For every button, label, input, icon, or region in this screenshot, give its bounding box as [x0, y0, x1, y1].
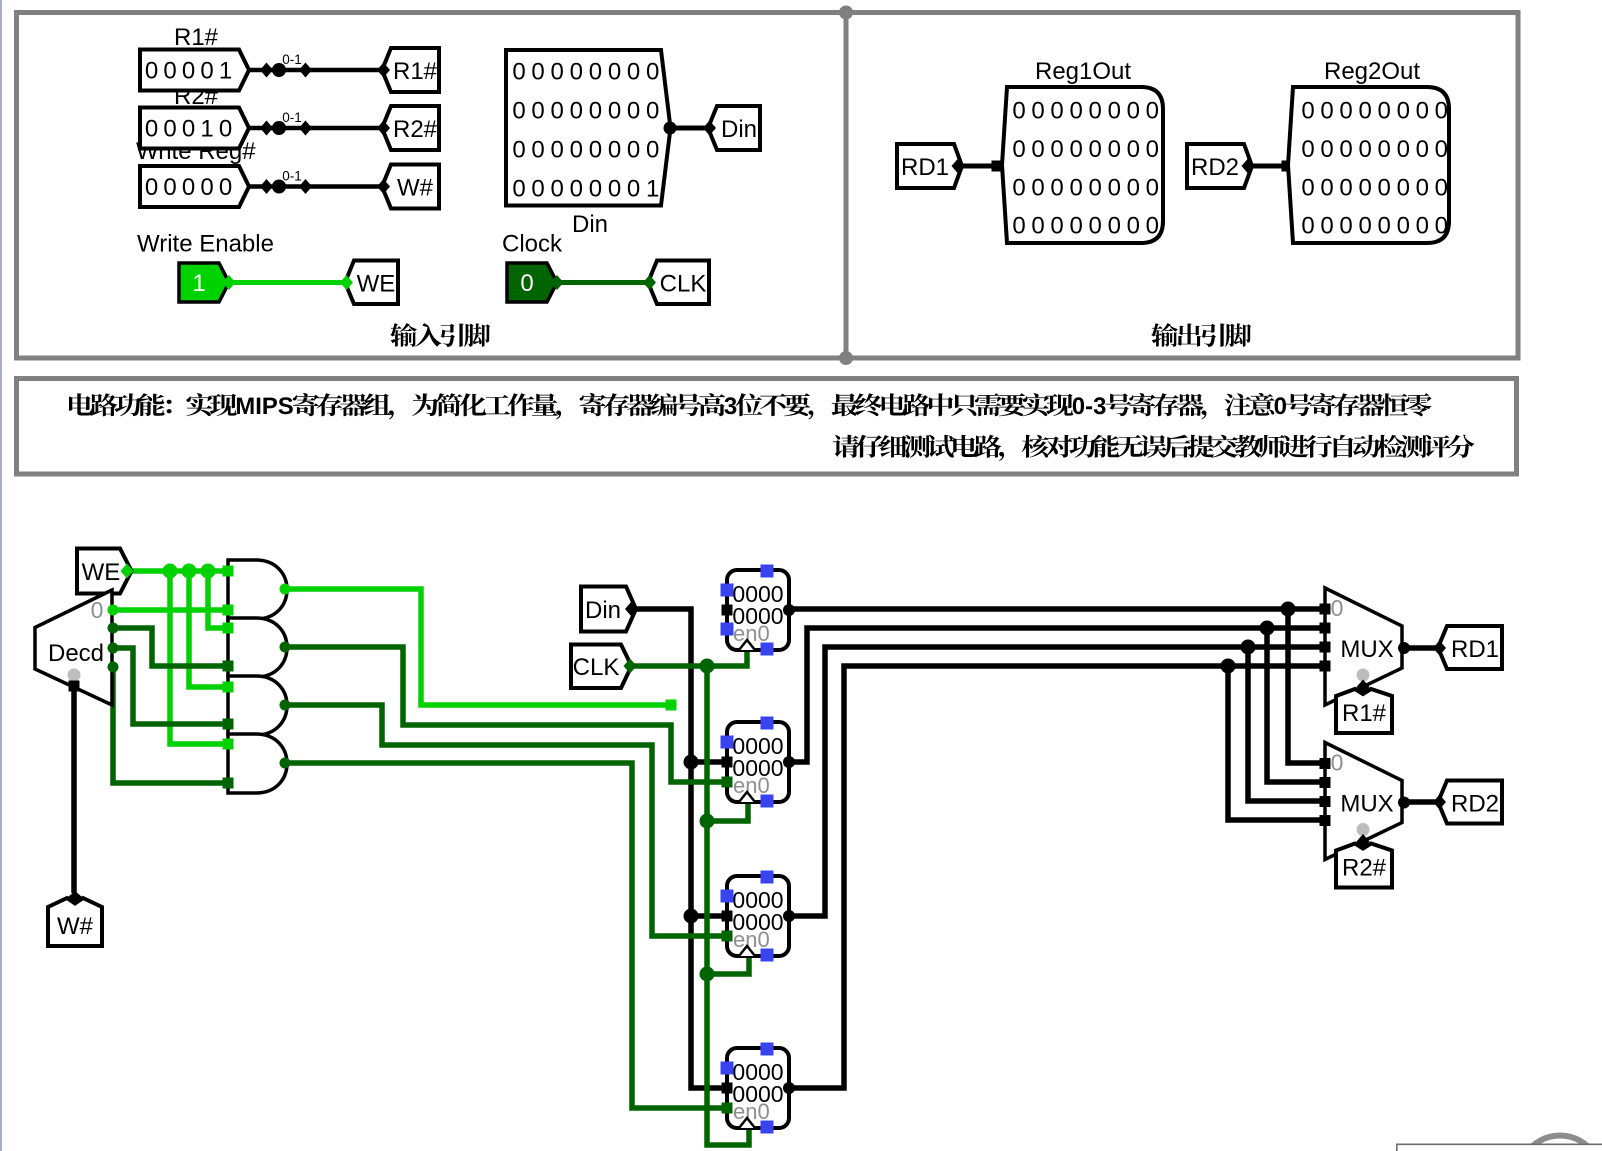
- svg-text:0: 0: [570, 137, 583, 164]
- svg-text:0: 0: [608, 137, 621, 164]
- pin RD1 (circuit): [1438, 626, 1502, 669]
- input pin Clock value 0: [507, 263, 557, 302]
- splitter fan-out diamond R1#: [260, 63, 273, 78]
- AND gate G1: [228, 560, 287, 619]
- wire WE point diamond: [223, 275, 236, 290]
- pin RD2 (circuit): [1438, 781, 1502, 824]
- label shuchu-yinjiao (output pins): [1151, 323, 1251, 347]
- wire gate4 out to reg4 en: [285, 763, 728, 1108]
- panel output-pins box: [846, 13, 1518, 359]
- pin CLK point: [624, 659, 637, 674]
- wire decoder out2 to gate3: [113, 648, 228, 724]
- MUX MUX1 input square 0: [1320, 604, 1331, 615]
- pin RD2 point: [1242, 159, 1255, 174]
- MUX MUX1 input square 3: [1320, 661, 1331, 672]
- svg-text:0: 0: [512, 137, 525, 164]
- wire W# pin to splitter: [244, 184, 382, 189]
- junction 170,571: [163, 564, 178, 579]
- svg-text:0: 0: [1127, 174, 1140, 201]
- svg-text:0: 0: [1358, 98, 1371, 125]
- wire decoder out0 to gate1: [113, 607, 228, 613]
- svg-text:0: 0: [1320, 174, 1333, 201]
- MUX MUX2 enable floating dot: [1357, 823, 1370, 836]
- decoder out3 port: [108, 662, 119, 673]
- svg-text:0: 0: [1089, 136, 1102, 163]
- wire CLK reg2 stub: [707, 803, 748, 821]
- svg-text:0: 0: [1108, 98, 1121, 125]
- gate G1 output port: [280, 584, 291, 595]
- input pin RD1: [897, 144, 962, 188]
- register REG2 handle bottom: [761, 795, 774, 808]
- svg-text:0: 0: [1069, 174, 1082, 201]
- frame left window edge: [0, 0, 2, 1151]
- svg-text:0: 0: [1320, 98, 1333, 125]
- svg-text:0: 0: [1339, 174, 1352, 201]
- register REG3 D input square: [722, 911, 733, 922]
- svg-text:RD1: RD1: [1451, 636, 1499, 663]
- wire end 728,762: [723, 757, 734, 768]
- gate G4 input square y=744: [223, 739, 234, 750]
- input pin RD2: [1187, 144, 1252, 188]
- svg-text:Reg1Out: Reg1Out: [1035, 58, 1131, 85]
- splitter fan-out diamond R2#: [260, 121, 273, 136]
- svg-text:1: 1: [192, 270, 205, 297]
- wire Din pin to Din label: [670, 126, 708, 131]
- svg-text:CLK: CLK: [660, 271, 707, 298]
- svg-text:W#: W#: [397, 175, 434, 202]
- junction 707,821: [700, 814, 715, 829]
- svg-text:0: 0: [1012, 174, 1025, 201]
- svg-text:0: 0: [1435, 136, 1448, 163]
- gate G2 input square y=666: [223, 661, 234, 672]
- register REG4 D input square: [722, 1083, 733, 1094]
- svg-text:0: 0: [627, 59, 640, 86]
- panel divider joint dots: [839, 6, 853, 20]
- label pin CLK: [648, 261, 709, 305]
- decoder out1 port: [108, 623, 119, 634]
- decoder select square: [69, 681, 80, 692]
- wire Din to reg2 D stub: [691, 759, 728, 765]
- svg-text:0: 0: [200, 174, 213, 201]
- svg-text:0: 0: [1069, 98, 1082, 125]
- svg-text:0-1: 0-1: [282, 169, 302, 184]
- wire Clock point diamond: [551, 275, 564, 290]
- svg-text:0: 0: [627, 176, 640, 203]
- svg-text:W#: W#: [57, 913, 94, 940]
- svg-text:0: 0: [589, 59, 602, 86]
- register REG3 handle left: [721, 890, 734, 903]
- gate G3 output port: [280, 700, 291, 711]
- svg-text:0: 0: [145, 174, 158, 201]
- junction 208,571: [201, 564, 216, 579]
- wire end 728,916: [723, 911, 734, 922]
- svg-text:0: 0: [1146, 136, 1159, 163]
- pin RD2 circuit point: [1433, 795, 1446, 810]
- svg-text:CLK: CLK: [573, 654, 620, 681]
- svg-text:0: 0: [1378, 213, 1391, 240]
- svg-text:WE: WE: [357, 271, 396, 298]
- MUX MUX1 input square 2: [1320, 642, 1331, 653]
- svg-text:R2#: R2#: [1342, 855, 1387, 882]
- MUX MUX1 body: [1325, 588, 1402, 705]
- junction 707,666: [700, 659, 715, 674]
- gate G3 input square y=687: [223, 682, 234, 693]
- svg-text:Write Enable: Write Enable: [137, 231, 274, 258]
- gate G2 output port: [280, 642, 291, 653]
- svg-text:0: 0: [1358, 174, 1371, 201]
- register REG4 handle bottom: [761, 1121, 774, 1134]
- label pin R2#: [382, 106, 439, 150]
- pin CLK (circuit): [571, 645, 632, 689]
- wire RD1 to probe1: [962, 164, 997, 169]
- wire reg1 Q to MUX1 in1: [789, 606, 1325, 612]
- AND gate G4: [228, 734, 287, 793]
- register REG3 handle bottom: [761, 949, 774, 962]
- svg-text:0: 0: [1089, 98, 1102, 125]
- svg-text:0: 0: [531, 59, 544, 86]
- svg-text:0: 0: [1320, 213, 1333, 240]
- MUX MUX2 select point: [1357, 834, 1370, 849]
- MUX MUX1 output port: [1398, 642, 1410, 654]
- ui corner panel: [1397, 1144, 1602, 1151]
- svg-text:1: 1: [200, 116, 213, 143]
- MUX MUX2 input square 3: [1320, 815, 1331, 826]
- svg-text:0: 0: [570, 176, 583, 203]
- svg-text:0: 0: [1435, 174, 1448, 201]
- input pin R2# 5-bit: [140, 108, 249, 149]
- svg-text:0: 0: [1146, 174, 1159, 201]
- svg-text:en0: en0: [733, 621, 770, 646]
- svg-text:0: 0: [551, 98, 564, 125]
- svg-text:WE: WE: [82, 559, 121, 586]
- splitter fan-in diamond R1#: [299, 63, 312, 78]
- svg-text:Din: Din: [721, 116, 757, 143]
- svg-text:0: 0: [1301, 213, 1314, 240]
- register REG1 handle left: [721, 584, 734, 597]
- wire end 728,1088: [723, 1083, 734, 1094]
- MUX MUX1 enable floating dot: [1357, 669, 1370, 682]
- wire MUX2 out to RD2: [1404, 799, 1438, 805]
- pin Din (circuit): [581, 587, 636, 632]
- gate G2 input square y=628: [223, 623, 234, 634]
- svg-text:MUX: MUX: [1340, 791, 1393, 818]
- svg-text:0: 0: [145, 58, 158, 85]
- junction 1267,628: [1260, 621, 1275, 636]
- register REG4 handle left: [721, 1062, 734, 1075]
- svg-text:0: 0: [646, 98, 659, 125]
- svg-text:R1#: R1#: [1342, 700, 1387, 727]
- register REG2 D input square: [722, 757, 733, 768]
- svg-text:0: 0: [1331, 750, 1344, 776]
- svg-text:RD2: RD2: [1191, 154, 1239, 181]
- splitter junction R2#: [272, 121, 286, 135]
- description line 2: [833, 435, 1475, 461]
- label pin R1# point: [377, 63, 390, 78]
- svg-text:0: 0: [1089, 213, 1102, 240]
- register REG3 Q output dot: [783, 910, 795, 922]
- gate G3 input square y=724: [223, 719, 234, 730]
- AND gate G3: [228, 676, 287, 735]
- input pin R1# 5-bit: [140, 50, 249, 91]
- register REG1 D input square: [722, 605, 733, 616]
- svg-text:0: 0: [1435, 213, 1448, 240]
- wire R1# pin to splitter: [244, 68, 382, 73]
- decoder out2 port: [108, 643, 119, 654]
- register REG2 Q output dot: [783, 756, 795, 768]
- svg-text:0: 0: [570, 59, 583, 86]
- svg-text:R1#: R1#: [174, 24, 219, 51]
- svg-text:0: 0: [1050, 136, 1063, 163]
- register REG2 body: [727, 722, 789, 802]
- svg-text:0: 0: [589, 137, 602, 164]
- svg-text:0: 0: [1012, 136, 1025, 163]
- MUX MUX2 output port: [1398, 797, 1410, 809]
- svg-text:0: 0: [163, 174, 176, 201]
- MUX MUX2 input square 0: [1320, 758, 1331, 769]
- svg-text:0: 0: [646, 59, 659, 86]
- register REG3 body: [727, 876, 789, 956]
- MUX MUX1 input square 1: [1320, 623, 1331, 634]
- svg-text:0: 0: [1397, 213, 1410, 240]
- svg-text:0: 0: [1012, 98, 1025, 125]
- svg-text:0: 0: [608, 59, 621, 86]
- register REG1 handle en: [721, 623, 734, 636]
- wire WE drop to gate3: [189, 571, 228, 687]
- wire MUX2 in4 drop: [1228, 666, 1325, 820]
- register REG2 clock triangle: [739, 792, 755, 802]
- panel input-pins box: [17, 13, 847, 359]
- svg-text:0: 0: [1127, 98, 1140, 125]
- svg-text:RD1: RD1: [901, 154, 949, 181]
- input pin Din 32-bit body: [506, 50, 671, 206]
- svg-text:0: 0: [200, 58, 213, 85]
- svg-text:0: 0: [1012, 213, 1025, 240]
- decoder enable floating dot: [68, 669, 81, 682]
- svg-text:0: 0: [531, 176, 544, 203]
- svg-text:R2#: R2#: [393, 116, 438, 143]
- description line 1: [69, 393, 1432, 419]
- svg-text:0: 0: [512, 59, 525, 86]
- svg-text:0: 0: [608, 176, 621, 203]
- svg-text:0: 0: [1397, 174, 1410, 201]
- svg-text:0: 0: [219, 174, 232, 201]
- register REG4 body: [727, 1048, 789, 1128]
- pin W#: [48, 898, 102, 946]
- gate G1 input square y=610: [223, 605, 234, 616]
- svg-text:0: 0: [1050, 174, 1063, 201]
- svg-text:0: 0: [182, 58, 195, 85]
- svg-text:0: 0: [1031, 213, 1044, 240]
- svg-text:0: 0: [145, 116, 158, 143]
- svg-text:0: 0: [1069, 136, 1082, 163]
- svg-text:0: 0: [551, 137, 564, 164]
- label pin WE point: [340, 275, 353, 290]
- register REG3 handle top: [761, 871, 774, 884]
- MUX MUX2 input square 1: [1320, 777, 1331, 788]
- wire decoder out3 to gate4: [113, 667, 228, 783]
- svg-text:0: 0: [1146, 213, 1159, 240]
- svg-text:0: 0: [1339, 213, 1352, 240]
- svg-text:0-1: 0-1: [282, 110, 302, 125]
- splitter junction W#: [272, 180, 286, 194]
- pin WE (circuit): [77, 549, 132, 594]
- svg-text:0: 0: [1378, 98, 1391, 125]
- MUX MUX2 input square 2: [1320, 796, 1331, 807]
- svg-text:0: 0: [163, 116, 176, 143]
- wire WE drop to gate4: [170, 571, 228, 744]
- probe Reg2Out body: [1288, 87, 1449, 243]
- register REG4 clock triangle: [739, 1118, 755, 1128]
- wire WE value pin to WE label: [225, 280, 345, 285]
- register REG1 body: [727, 570, 789, 650]
- svg-text:0: 0: [182, 174, 195, 201]
- register REG1 handle bottom: [761, 643, 774, 656]
- svg-text:MUX: MUX: [1340, 636, 1393, 663]
- svg-text:0: 0: [1031, 136, 1044, 163]
- svg-text:R1#: R1#: [393, 58, 438, 85]
- svg-text:0: 0: [512, 98, 525, 125]
- svg-text:Din: Din: [572, 211, 608, 238]
- svg-text:0: 0: [531, 98, 544, 125]
- wire MUX2 in1 drop: [1288, 609, 1325, 763]
- wire R2# pin to splitter: [244, 126, 382, 131]
- svg-text:0: 0: [1301, 98, 1314, 125]
- wire Din bus vertical: [636, 609, 728, 1088]
- svg-text:0: 0: [1089, 174, 1102, 201]
- svg-text:0: 0: [627, 137, 640, 164]
- svg-text:0: 0: [1339, 98, 1352, 125]
- label pin R2# point: [377, 121, 390, 136]
- wire reg3 Q riser: [789, 647, 1325, 916]
- svg-text:0: 0: [182, 116, 195, 143]
- label pin Din point: [703, 121, 716, 136]
- wire gate1 out dangling: [285, 589, 671, 705]
- pin RD1 circuit point: [1433, 641, 1446, 656]
- svg-text:0: 0: [91, 597, 104, 623]
- svg-text:0: 0: [1050, 213, 1063, 240]
- Din pin output junction: [664, 122, 677, 135]
- wire reg4 Q riser: [789, 666, 1325, 1088]
- svg-text:0: 0: [1378, 136, 1391, 163]
- wire WE drop to gate2: [208, 571, 228, 628]
- svg-text:0: 0: [570, 98, 583, 125]
- svg-text:0: 0: [1127, 136, 1140, 163]
- register REG2 handle left: [721, 736, 734, 749]
- decoder out0 port: [108, 605, 119, 616]
- svg-text:0: 0: [1146, 98, 1159, 125]
- svg-text:0: 0: [608, 98, 621, 125]
- wire gate2 out to reg2 en: [285, 647, 728, 782]
- register REG1 handle top: [761, 565, 774, 578]
- register REG3 clock triangle: [739, 946, 755, 956]
- junction 707,974: [700, 967, 715, 982]
- svg-text:0: 0: [219, 116, 232, 143]
- register REG1 Q output dot: [783, 604, 795, 616]
- wire gate3 out to reg3 en: [285, 705, 728, 936]
- probe1 input square: [992, 161, 1003, 172]
- svg-text:Din: Din: [585, 597, 621, 624]
- MUX MUX1 select point: [1357, 680, 1370, 695]
- MUX MUX2 body: [1325, 743, 1402, 860]
- svg-text:0: 0: [1108, 136, 1121, 163]
- wire MUX2 in3 drop: [1248, 647, 1325, 801]
- wire Din to reg3 D stub: [691, 913, 728, 919]
- wire CLK bus vertical: [707, 666, 749, 1145]
- wire CLK reg3 stub: [707, 956, 749, 974]
- input pin W# 5-bit: [140, 166, 249, 207]
- svg-text:0: 0: [1358, 213, 1371, 240]
- wire RD2 to probe2: [1252, 164, 1287, 169]
- junction 189,571: [182, 564, 197, 579]
- ui zoom knob arc: [1520, 1136, 1601, 1151]
- pin RD1 point: [952, 159, 965, 174]
- wire reg2 Q riser: [789, 628, 1325, 762]
- svg-text:0: 0: [520, 270, 533, 297]
- label pin W# point: [377, 179, 390, 194]
- wire MUX1 out to RD1: [1404, 645, 1438, 651]
- gate G4 input square y=783: [223, 778, 234, 789]
- svg-text:1: 1: [646, 176, 659, 203]
- svg-text:0: 0: [1416, 174, 1429, 201]
- pin Din point: [625, 602, 638, 617]
- svg-text:en0: en0: [733, 1099, 770, 1124]
- svg-text:0: 0: [1339, 136, 1352, 163]
- wire decoder select to W#: [71, 690, 77, 893]
- register REG3 en input square: [722, 931, 733, 942]
- svg-text:en0: en0: [733, 927, 770, 952]
- register REG4 en input square: [722, 1103, 733, 1114]
- svg-text:0: 0: [1378, 174, 1391, 201]
- register REG1 clock triangle: [739, 640, 755, 650]
- pin R1#: [1336, 689, 1392, 733]
- svg-text:0: 0: [1358, 136, 1371, 163]
- register REG4 Q output dot: [783, 1082, 795, 1094]
- splitter fan-in diamond W#: [299, 179, 312, 194]
- junction 691,916: [684, 909, 699, 924]
- register REG4 handle top: [761, 1043, 774, 1056]
- svg-text:0: 0: [1397, 98, 1410, 125]
- wire decoder out1 to gate2: [113, 628, 228, 666]
- svg-text:0: 0: [1301, 136, 1314, 163]
- svg-text:0: 0: [551, 59, 564, 86]
- pin R2#: [1336, 844, 1392, 888]
- svg-text:0: 0: [1069, 213, 1082, 240]
- svg-text:0: 0: [531, 137, 544, 164]
- svg-text:0: 0: [1108, 174, 1121, 201]
- probe2 input square: [1282, 161, 1293, 172]
- svg-text:Clock: Clock: [502, 231, 563, 258]
- svg-text:0-1: 0-1: [282, 52, 302, 67]
- pin WE point: [121, 564, 134, 579]
- splitter fan-out diamond W#: [260, 179, 273, 194]
- svg-text:0: 0: [1108, 213, 1121, 240]
- gate G1 input square y=571: [223, 566, 234, 577]
- svg-text:0: 0: [512, 176, 525, 203]
- junction 691,762: [684, 755, 699, 770]
- label pin WE: [345, 261, 398, 305]
- input pin Write Enable value 1: [179, 263, 229, 302]
- label pin Din: [708, 106, 760, 150]
- svg-text:Decd: Decd: [48, 640, 104, 667]
- svg-text:0: 0: [1435, 98, 1448, 125]
- svg-text:0: 0: [589, 176, 602, 203]
- probe Reg1Out body: [1002, 87, 1163, 243]
- label pin W#: [382, 165, 439, 209]
- junction 1248,647: [1241, 640, 1256, 655]
- junction 1288,609: [1281, 602, 1296, 617]
- svg-text:0: 0: [646, 137, 659, 164]
- svg-text:0: 0: [163, 58, 176, 85]
